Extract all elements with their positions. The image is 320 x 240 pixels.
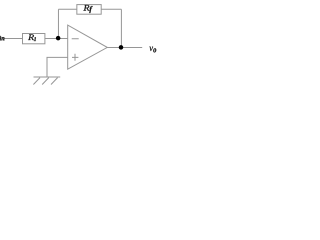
label R1 value: [28, 34, 36, 41]
wire feedback vertical right: [120, 9, 122, 47]
wire Rf to right vertical: [101, 8, 121, 10]
resistor Rf: [77, 5, 101, 15]
node junction dot at output: [119, 45, 124, 50]
node junction dot at inverting input: [56, 36, 61, 41]
wire ground to noninverting input: [47, 57, 68, 77]
op-amp inverting input minus sign: [72, 38, 79, 40]
op-amp noninverting input plus sign: [72, 54, 78, 61]
label vo output: [149, 47, 156, 53]
label Rf value: [83, 5, 92, 13]
ground: [33, 77, 60, 85]
label vin (clipped at left edge): [0, 34, 4, 40]
wire top left to Rf: [58, 8, 76, 10]
wire R1 to inverting input: [45, 38, 68, 40]
wire feedback vertical left: [57, 9, 59, 38]
resistor R1: [23, 34, 45, 44]
wire vin to R1: [5, 38, 23, 40]
wire output: [107, 47, 142, 49]
op-amp U1: [68, 25, 108, 69]
